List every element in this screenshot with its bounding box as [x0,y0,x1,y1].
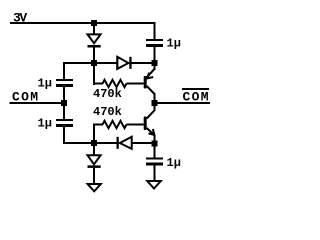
wire rail drop to C3 [154,22,156,39]
wire C4 to ground [154,166,156,182]
svg-text:470k: 470k [93,105,122,119]
wire Q2 emitter to node E [154,135,156,145]
diode D1 (pointing right) [116,57,118,69]
diode D3 (vertical, pointing down) [88,34,101,43]
wire 3V rail [10,22,156,24]
svg-text:1μ: 1μ [38,117,52,131]
capacitor C3 1u [146,39,163,41]
wire R1 to Q1 base [127,83,144,85]
node B junction [91,60,97,66]
wire COM lead [10,102,64,104]
node junction on 3V rail [91,20,97,26]
svg-text:470k: 470k [93,87,122,101]
wire upper row left (node B to C1 corner) [63,62,95,64]
node COM junction [61,100,67,106]
wire Q1 collector down to node D [154,93,156,103]
wire C3 to node A [154,47,156,63]
node COMbar label [182,88,209,90]
wire D4 to ground [93,168,95,185]
resistor R1 470k [103,80,127,87]
wire node C to D2 [93,142,117,144]
diode D4 (vertical, pointing down) [88,155,101,164]
wire C2 bottom lead and corner to node C [63,127,65,144]
transistor Q2 (NPN) [144,117,147,131]
diode D2 (pointing left) [117,137,119,149]
wire D1 cathode to node A [132,62,156,64]
wire C1 bottom to COM node [63,87,65,103]
wire COMbar lead [154,102,210,104]
node C junction [91,140,97,146]
wire node B to D1 [93,62,117,64]
wire node B down to R1 [93,63,95,85]
capacitor C4 1u [146,158,163,160]
wire COM node to C2 [63,103,65,120]
wire Q1 emitter to node A [154,63,156,70]
node A junction [152,60,158,66]
wire node C down to D4 [93,144,95,156]
wire R2 to Q2 base [127,124,144,126]
svg-text:1μ: 1μ [167,37,181,51]
wire D2 anode to node E [132,142,156,144]
capacitor C1 1u [56,79,73,81]
wire D3 cathode to node B [93,48,95,64]
ground (right) [147,181,161,189]
wire C1 top lead [63,62,65,80]
svg-text:1μ: 1μ [38,77,52,91]
svg-text:1μ: 1μ [167,156,181,170]
node D junction [152,100,158,106]
wire node E to C4 [154,144,156,159]
wire Q2 collector to node D [154,103,156,111]
node E junction [152,141,158,147]
wire D3 top lead [93,23,95,35]
wire R2 left corner from node C [93,124,103,126]
transistor Q1 (PNP) [144,76,147,89]
ground (left) [88,184,101,191]
capacitor C2 1u [56,119,73,121]
resistor R2 470k [103,121,127,128]
